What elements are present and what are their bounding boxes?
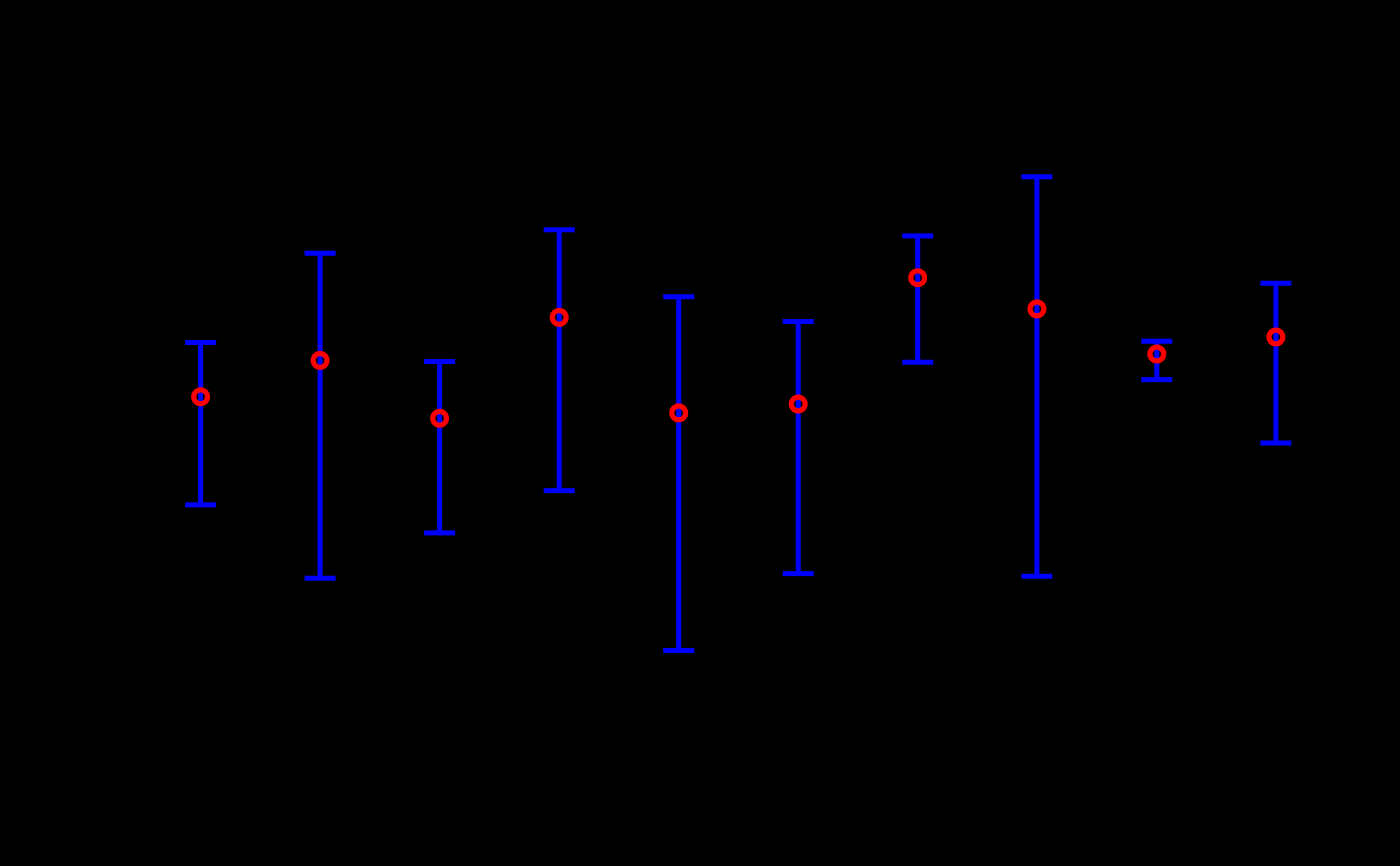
errorbar series: blue bars with caps, red open circle markers xyxy=(185,177,1291,651)
bar 7 xyxy=(902,236,933,362)
bar 1 xyxy=(185,343,216,505)
bar 10 xyxy=(1260,283,1291,443)
bar 5 xyxy=(663,297,694,651)
bar 2 xyxy=(305,253,336,578)
bar 8 xyxy=(1021,177,1052,577)
bar 3 xyxy=(424,362,455,533)
bar 9 xyxy=(1141,341,1172,379)
bar 4 xyxy=(544,230,575,491)
red open circle markers xyxy=(194,271,1283,425)
bar 6 xyxy=(783,322,814,574)
